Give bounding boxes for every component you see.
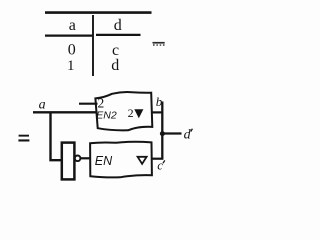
inverter output bubble [75, 156, 81, 162]
ellipsis artifact right of table [153, 42, 165, 46]
svg-text:EN: EN [95, 154, 113, 168]
svg-text:EN2: EN2 [96, 110, 117, 122]
svg-text:a: a [39, 98, 46, 113]
equals sign [18, 135, 29, 142]
table header underline left [45, 34, 94, 36]
wire to output d [162, 132, 181, 134]
wire bubble to lower box [81, 157, 90, 159]
svg-text:2: 2 [98, 95, 105, 110]
table top rule [45, 11, 152, 14]
svg-text:2: 2 [128, 106, 134, 120]
wire lower box output stub [152, 158, 164, 160]
wire a input [33, 111, 98, 113]
wire branch down to inverter [51, 112, 62, 160]
junction dot [160, 131, 165, 136]
wire upper box output stub [152, 111, 163, 113]
svg-text:c: c [157, 158, 163, 173]
inverter Q1 tall box [62, 143, 75, 180]
svg-text:d: d [111, 57, 119, 74]
wire node c vertical [161, 134, 163, 159]
tri-state marker filled triangle upper box [134, 109, 143, 118]
tri-state marker open triangle lower box [138, 157, 147, 164]
svg-text:0: 0 [68, 42, 76, 59]
svg-text:d: d [114, 17, 122, 34]
svg-text:d: d [184, 128, 192, 143]
op-amp U2 lower logic box [90, 142, 152, 178]
op-amp U1 upper logic box [95, 92, 152, 130]
wire node b vertical [161, 102, 163, 135]
pin stub input 2 of upper box [79, 103, 98, 105]
table column divider [92, 15, 94, 76]
svg-text:a: a [69, 17, 76, 34]
table header underline right [96, 34, 141, 36]
svg-text:1: 1 [67, 58, 75, 74]
